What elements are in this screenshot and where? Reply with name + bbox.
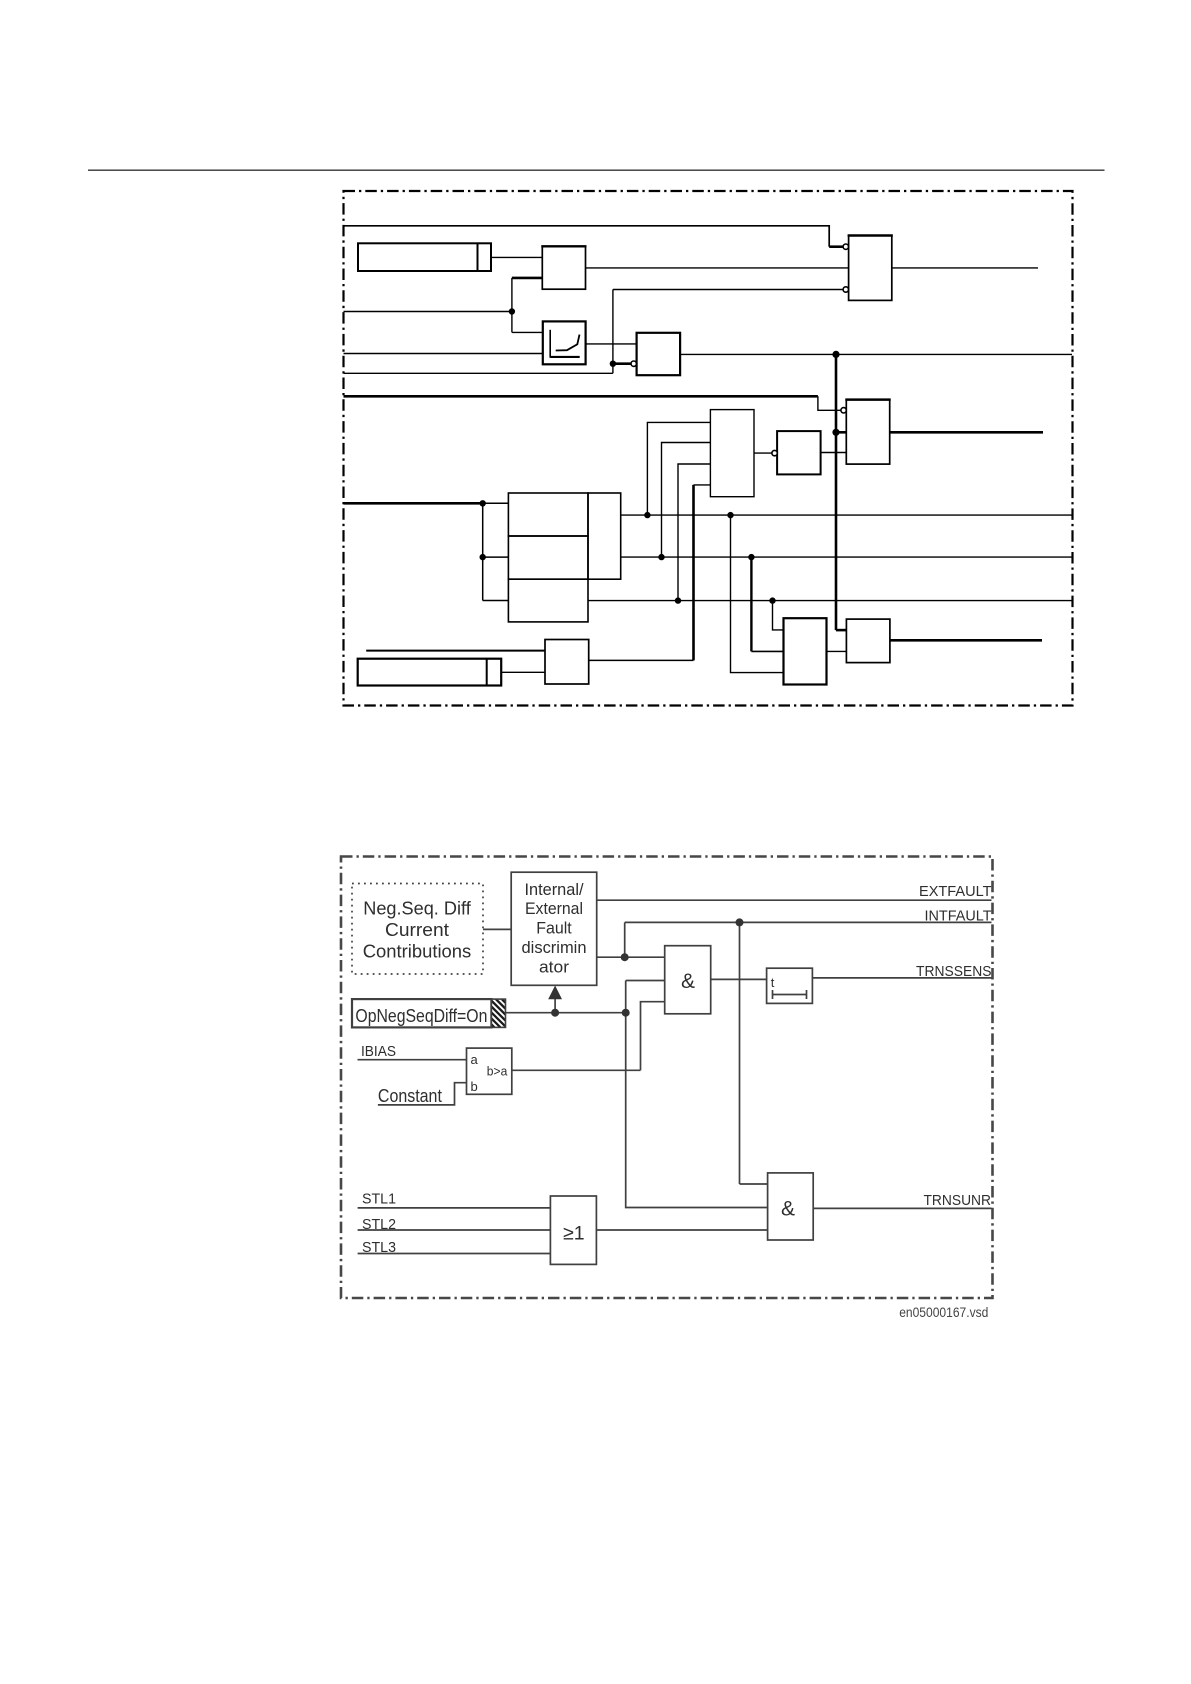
svg-text:&: & (681, 970, 695, 993)
svg-text:Constant: Constant (378, 1086, 442, 1106)
svg-text:ator: ator (539, 957, 569, 976)
svg-text:en05000167.vsd: en05000167.vsd (899, 1305, 988, 1320)
svg-text:Neg.Seq. Diff: Neg.Seq. Diff (363, 899, 471, 919)
svg-text:OpNegSeqDiff=On: OpNegSeqDiff=On (355, 1006, 487, 1026)
svg-text:discrimin: discrimin (522, 938, 587, 957)
svg-text:t: t (771, 975, 775, 990)
svg-text:Contributions: Contributions (363, 942, 472, 962)
svg-text:TRNSUNR: TRNSUNR (924, 1192, 992, 1209)
svg-text:≥1: ≥1 (563, 1223, 585, 1245)
svg-text:Fault: Fault (536, 919, 572, 938)
svg-text:b: b (471, 1079, 478, 1094)
svg-text:&: & (781, 1198, 795, 1221)
svg-text:a: a (471, 1052, 479, 1067)
svg-text:Current: Current (385, 920, 449, 940)
svg-text:b>a: b>a (487, 1063, 508, 1078)
svg-text:EXTFAULT: EXTFAULT (919, 883, 992, 900)
svg-text:STL2: STL2 (362, 1217, 396, 1233)
svg-text:TRNSSENS: TRNSSENS (916, 963, 992, 980)
svg-text:STL1: STL1 (362, 1192, 396, 1208)
svg-text:IBIAS: IBIAS (361, 1044, 396, 1060)
svg-text:Internal/: Internal/ (525, 880, 584, 899)
svg-text:External: External (525, 899, 583, 918)
svg-text:STL3: STL3 (362, 1240, 396, 1256)
svg-text:INTFAULT: INTFAULT (925, 908, 992, 925)
